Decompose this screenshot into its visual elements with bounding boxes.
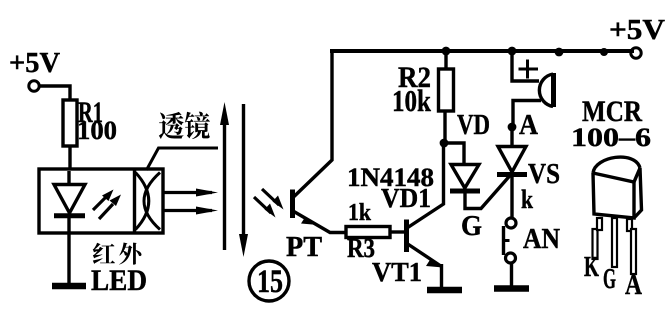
- svg-text:100: 100: [77, 116, 117, 145]
- svg-text:VD1: VD1: [381, 183, 431, 213]
- svg-text:k: k: [521, 185, 533, 214]
- svg-text:100–6: 100–6: [571, 123, 651, 152]
- svg-text:+5V: +5V: [9, 48, 60, 79]
- svg-text:AN: AN: [523, 224, 560, 255]
- svg-text:A: A: [625, 270, 643, 301]
- svg-text:A: A: [519, 109, 538, 141]
- svg-text:10k: 10k: [392, 83, 432, 118]
- svg-text:15: 15: [257, 264, 283, 300]
- svg-text:1k: 1k: [348, 200, 372, 226]
- svg-text:K: K: [584, 252, 599, 283]
- svg-text:LED: LED: [91, 264, 147, 297]
- svg-text:R3: R3: [347, 233, 375, 263]
- svg-text:VT1: VT1: [372, 257, 422, 287]
- svg-text:+5V: +5V: [609, 15, 665, 46]
- svg-text:VD: VD: [457, 109, 490, 141]
- svg-text:G: G: [603, 264, 616, 295]
- svg-text:G: G: [461, 211, 482, 242]
- svg-text:PT: PT: [286, 232, 322, 263]
